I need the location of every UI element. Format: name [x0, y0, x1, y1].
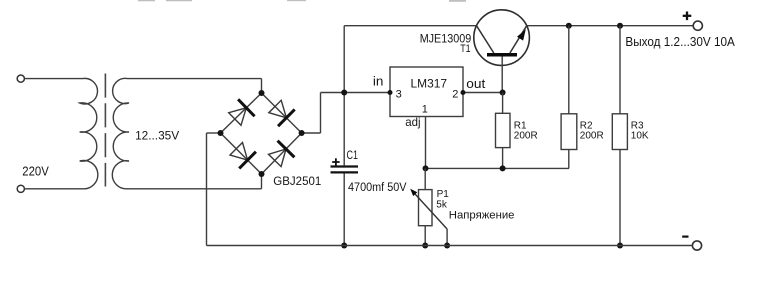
- svg-text:Напряжение: Напряжение: [449, 210, 515, 222]
- svg-text:220V: 220V: [22, 164, 49, 178]
- svg-text:T1: T1: [460, 43, 470, 55]
- svg-text:12...35V: 12...35V: [135, 128, 179, 142]
- svg-text:in: in: [373, 74, 384, 88]
- svg-text:10K: 10K: [631, 130, 649, 141]
- svg-text:2: 2: [452, 88, 458, 100]
- svg-text:200R: 200R: [514, 130, 538, 141]
- svg-text:LM317: LM317: [411, 76, 448, 90]
- svg-text:3: 3: [396, 88, 402, 100]
- svg-text:adj: adj: [405, 115, 420, 129]
- svg-text:4700mf 50V: 4700mf 50V: [348, 182, 407, 194]
- svg-text:GBJ2501: GBJ2501: [273, 174, 321, 188]
- svg-text:P1: P1: [437, 189, 450, 200]
- svg-text:200R: 200R: [580, 130, 604, 141]
- svg-text:1: 1: [422, 103, 428, 115]
- svg-text:5k: 5k: [436, 199, 448, 210]
- svg-text:out: out: [466, 77, 486, 91]
- svg-text:Выход 1.2...30V 10A: Выход 1.2...30V 10A: [625, 35, 735, 49]
- svg-text:C1: C1: [347, 148, 359, 162]
